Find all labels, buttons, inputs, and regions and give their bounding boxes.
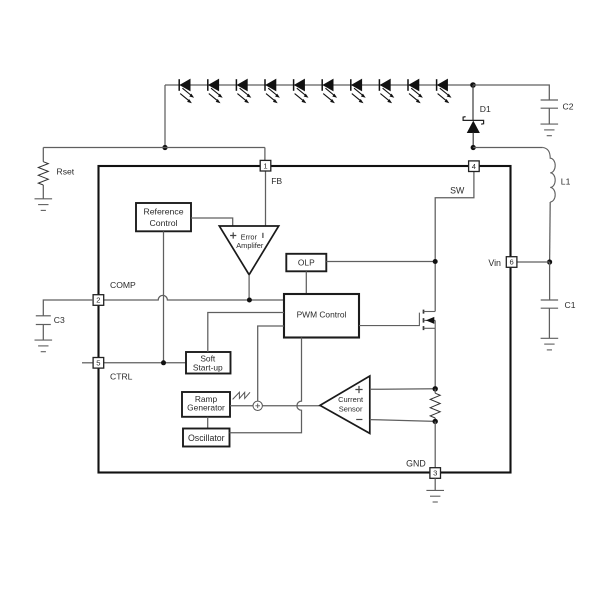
resistor Rs (current sense) — [430, 393, 440, 418]
svg-text:4: 4 — [472, 162, 476, 171]
wire: MOSFET source to sense resistor — [434, 328, 436, 389]
block: OLP — [286, 254, 326, 271]
LED 6 of string — [322, 79, 337, 103]
block: Oscillator — [183, 429, 230, 447]
junction: Vin / L1 / C1 node — [547, 259, 552, 264]
svg-text:GND: GND — [406, 458, 426, 468]
LED 7 of string — [351, 79, 366, 103]
wire: Oscillator to PWM Control (hop over adder wire) — [230, 338, 302, 433]
transistor Q1 (power NMOS) — [359, 310, 435, 331]
svg-text:Amplifer: Amplifer — [236, 241, 264, 250]
wire: D1 anode lead — [472, 133, 474, 148]
LED 3 of string — [236, 79, 251, 103]
svg-text:Start-up: Start-up — [193, 362, 223, 372]
capacitor C1 — [541, 300, 576, 310]
LED 9 of string — [408, 79, 423, 103]
wire: SW pin to MOSFET drain — [435, 171, 474, 311]
svg-text:Generator: Generator — [187, 403, 225, 413]
wire: Reference Control to CTRL line — [163, 231, 165, 362]
wire: adder to Current Sensor output — [262, 405, 320, 407]
svg-text:SW: SW — [450, 186, 465, 196]
svg-text:6: 6 — [509, 258, 513, 267]
wire: Current Sensor - input — [370, 420, 435, 422]
svg-text:L1: L1 — [561, 176, 571, 186]
LED 4 of string — [265, 79, 280, 103]
LED 5 of string — [294, 79, 309, 103]
block: Soft Start-up — [186, 352, 231, 374]
wire: C1 bottom lead — [548, 308, 550, 338]
block: Ramp Generator — [182, 392, 230, 417]
svg-text:5: 5 — [96, 359, 100, 368]
wire: OLP to drain line — [326, 261, 435, 263]
svg-text:Control: Control — [149, 218, 177, 228]
pin 6 Vin — [488, 257, 517, 268]
wire: GND pin to ground — [434, 478, 436, 490]
wire: Soft Start-up to PWM Control — [208, 313, 284, 353]
wire: COMP pin to C3 — [43, 300, 93, 316]
ground (C3) — [35, 340, 53, 352]
wire: Rset bottom lead — [42, 185, 44, 199]
junction: source / + input / Rs top — [433, 386, 438, 391]
wire: Rs leads — [434, 389, 436, 422]
wire: D1 cathode lead — [472, 85, 474, 120]
op-amp: Error Amplifier — [219, 226, 278, 275]
svg-text:D1: D1 — [480, 104, 491, 114]
svg-text:Vin: Vin — [488, 258, 501, 268]
wire: Vin pin to node — [517, 261, 550, 263]
diode D1 (schottky) — [463, 104, 491, 133]
inductor L1 — [543, 148, 571, 203]
svg-text:Sensor: Sensor — [339, 405, 363, 414]
wire: SW node to L1 — [473, 147, 543, 149]
svg-text:OLP: OLP — [298, 257, 315, 267]
wire: OLP to PWM Control — [305, 271, 307, 294]
block: PWM Control — [284, 294, 359, 338]
svg-text:1: 1 — [263, 161, 267, 170]
junction: Rs bottom / - input / GND — [433, 419, 438, 424]
svg-text:C1: C1 — [565, 300, 576, 310]
wire: Rset top lead — [42, 148, 44, 162]
junction: CTRL / Reference Control — [161, 360, 166, 365]
junction: SW / D1 / L1 node — [471, 145, 476, 150]
ground (C1) — [541, 338, 559, 350]
capacitor C3 — [36, 315, 65, 325]
svg-text:Rset: Rset — [57, 167, 75, 177]
block: Reference Control — [136, 203, 191, 231]
svg-text:Current: Current — [338, 395, 364, 404]
wire: FB pin to error amp - input — [265, 171, 267, 225]
wire: L1 to Vin node — [549, 202, 552, 262]
wire: C3 bottom lead — [42, 325, 44, 340]
svg-text:C2: C2 — [563, 102, 574, 112]
sawtooth waveform symbol — [233, 392, 250, 399]
svg-text:Reference: Reference — [143, 207, 183, 217]
svg-text:COMP: COMP — [110, 280, 136, 290]
wire: C2 bottom lead — [548, 108, 550, 124]
pin 3 GND — [406, 458, 440, 478]
wire: C1 top lead — [549, 262, 551, 300]
svg-text:FB: FB — [271, 176, 282, 186]
wire: Reference Control to error amp + input — [191, 218, 233, 226]
IC block outline U1 — [99, 166, 511, 473]
wire: LED string top rail — [165, 84, 473, 86]
pin 4 SW — [450, 161, 479, 196]
wire: drop to FB pin — [264, 148, 266, 161]
pin 2 COMP — [93, 280, 136, 305]
svg-text:3: 3 — [433, 469, 437, 478]
junction: error amp output on COMP line — [247, 298, 252, 303]
LED 10 of string — [437, 79, 452, 103]
ground (C2) — [541, 124, 559, 136]
junction: LED+ / D1 / C2 node — [470, 82, 476, 88]
resistor Rset — [38, 162, 74, 185]
wire: Ramp Generator to adder — [230, 405, 253, 407]
svg-text:2: 2 — [96, 296, 100, 305]
wire: error amp output — [248, 275, 250, 300]
wire: CTRL pin to Soft Start-up — [104, 362, 186, 364]
LED 1 of string — [179, 79, 194, 103]
junction: LED rail / Rset-FB node — [162, 145, 167, 150]
wire: adder to PWM Control — [258, 326, 284, 401]
wire: Current Sensor + input — [370, 388, 435, 391]
svg-text:PWM Control: PWM Control — [297, 310, 347, 320]
junction: OLP / drain — [433, 259, 438, 264]
adder (summing node) — [253, 401, 262, 410]
wire: COMP pin to PWM Control (hop over vertical) — [104, 295, 284, 300]
wire: node to C2 — [473, 85, 549, 100]
LED 8 of string — [379, 79, 394, 103]
capacitor C2 — [541, 100, 574, 112]
wire: Rset to FB pin — [43, 147, 265, 149]
ground (GND pin) — [426, 490, 444, 502]
svg-text:Oscillator: Oscillator — [188, 433, 225, 443]
svg-text:CTRL: CTRL — [110, 371, 133, 381]
pin 5 CTRL — [93, 358, 133, 382]
wire: LED string left drop — [164, 85, 166, 148]
LED 2 of string — [208, 79, 223, 103]
wire: Ramp Generator to Oscillator — [207, 417, 209, 429]
wire: Rs bottom to GND pin — [434, 421, 436, 467]
pin 1 FB — [260, 160, 282, 186]
op-amp: Current Sensor — [320, 376, 370, 433]
wire: CTRL pin stub (outside) — [82, 362, 93, 364]
ground (Rset) — [35, 199, 53, 211]
svg-text:C3: C3 — [54, 315, 65, 325]
